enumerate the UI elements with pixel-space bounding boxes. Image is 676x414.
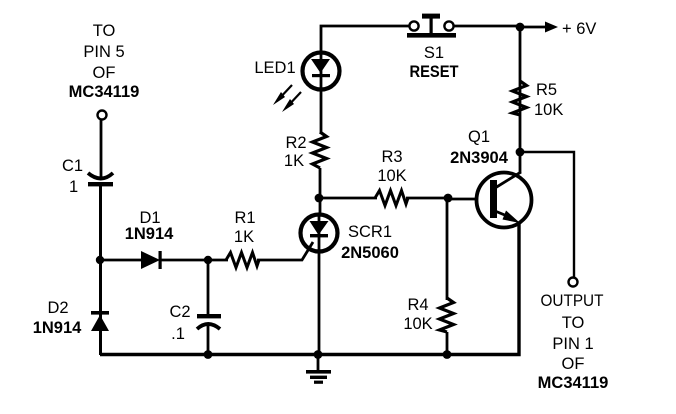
wire: LED to R2	[320, 90, 323, 134]
wire: SCR cathode to rail	[318, 251, 321, 355]
wire: terminal to C1	[100, 119, 103, 179]
svg-text:1N914: 1N914	[125, 225, 174, 243]
resistor R3 10K	[375, 148, 408, 206]
node: junction R3/R4/base	[444, 194, 453, 203]
switch S1 RESET	[407, 14, 521, 81]
svg-text:R3: R3	[381, 148, 402, 166]
svg-text:OF: OF	[93, 64, 116, 82]
wire: base junction to Q1	[448, 198, 478, 201]
svg-text:D2: D2	[47, 299, 68, 317]
svg-text:R1: R1	[234, 209, 255, 227]
wire: R3 to base junction	[406, 197, 448, 200]
svg-text:R2: R2	[285, 134, 306, 152]
resistor R4 10K	[403, 296, 453, 333]
svg-text:LED1: LED1	[254, 59, 295, 77]
svg-text:OUTPUT: OUTPUT	[541, 292, 604, 310]
transistor Q1 2N3904	[450, 128, 531, 228]
wire: C1 down to bottom rail	[99, 186, 102, 355]
LED1	[254, 53, 339, 91]
resistor R1 1K	[226, 209, 259, 268]
wire: junction to R3	[319, 197, 377, 200]
svg-text:TO: TO	[562, 314, 585, 332]
resistor R2 1K	[284, 132, 327, 170]
node: junction +6V	[516, 23, 525, 32]
SCR1 2N5060	[301, 215, 399, 263]
LED light arrow 1	[273, 85, 292, 105]
wire: top rail from LED branch to S1	[321, 26, 410, 51]
svg-text:MC34119: MC34119	[538, 374, 609, 392]
node: junction R2/R3/SCR	[315, 194, 324, 203]
node: output terminal (open circle)	[569, 278, 578, 287]
svg-text:RESET: RESET	[410, 63, 459, 81]
diode D2 1N914	[33, 299, 109, 337]
resistor R5 10K	[513, 81, 564, 119]
svg-text:PIN 5: PIN 5	[83, 43, 124, 61]
svg-text:1N914: 1N914	[33, 319, 82, 337]
node: junction at C2 branch	[204, 256, 212, 264]
node: junction SCR cathode/rail	[314, 350, 323, 359]
node: junction R4/rail	[443, 350, 452, 359]
svg-text:2N3904: 2N3904	[450, 149, 509, 167]
node: OUTPUT TO PIN 1 OF MC34119 label	[538, 292, 609, 392]
wire: junction to R4	[446, 198, 449, 300]
node: TO PIN 5 OF MC34119 label	[69, 22, 140, 101]
svg-text:R4: R4	[407, 296, 428, 314]
svg-text:SCR1: SCR1	[348, 223, 392, 241]
node: junction C2/rail	[204, 350, 213, 359]
svg-text:OF: OF	[562, 355, 585, 373]
diode D1 1N914	[125, 209, 174, 269]
wire: C2 to bottom rail	[207, 324, 210, 355]
svg-text:PIN 1: PIN 1	[552, 335, 593, 353]
wire: output from collector junction	[520, 152, 574, 277]
wire: collector up to junction and +6V rail	[519, 27, 522, 173]
svg-text:1K: 1K	[234, 228, 254, 246]
svg-text:TO: TO	[93, 22, 116, 40]
LED light arrow 2	[282, 92, 301, 112]
node: junction at C1/D1	[96, 256, 104, 264]
capacitor C2	[169, 303, 221, 343]
svg-text:C2: C2	[169, 303, 190, 321]
svg-text:2N5060: 2N5060	[341, 244, 399, 262]
svg-text:10K: 10K	[403, 315, 432, 333]
svg-text:1K: 1K	[284, 152, 304, 170]
wire: R1 to SCR gate	[257, 242, 313, 260]
svg-text:R5: R5	[536, 81, 557, 99]
node: +6V supply arrow	[520, 20, 596, 38]
svg-text:10K: 10K	[377, 167, 406, 185]
svg-text:C1: C1	[62, 157, 83, 175]
svg-text:10K: 10K	[534, 101, 563, 119]
svg-text:MC34119: MC34119	[69, 83, 140, 101]
node: input terminal (open circle)	[98, 111, 107, 120]
svg-text:S1: S1	[424, 44, 444, 62]
wire: junction to D1	[100, 259, 143, 262]
svg-text:.1: .1	[171, 325, 185, 343]
node: junction collector/output	[516, 148, 525, 157]
wire: R2 to SCR	[319, 168, 322, 214]
ground	[306, 354, 331, 384]
capacitor C1	[62, 157, 113, 196]
svg-text:1: 1	[69, 178, 78, 196]
wire: bottom rail	[100, 222, 519, 355]
wire: D1 to R1	[161, 259, 228, 262]
svg-text:+ 6V: + 6V	[562, 20, 596, 38]
wire: R4 to rail	[446, 332, 449, 355]
wire: C2 branch vertical	[207, 260, 210, 315]
svg-text:Q1: Q1	[468, 128, 490, 146]
